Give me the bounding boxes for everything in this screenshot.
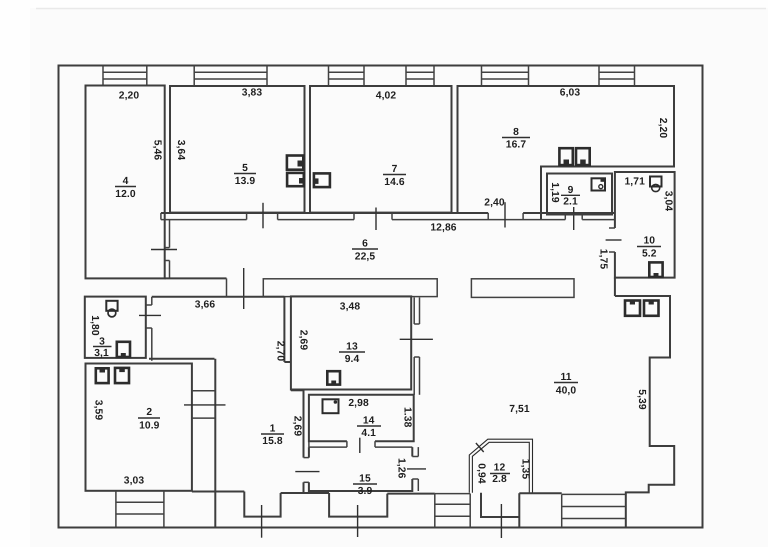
svg-text:3,59: 3,59 <box>92 400 103 421</box>
svg-text:22,5: 22,5 <box>355 252 376 263</box>
room 14 number/area <box>357 416 381 440</box>
room 10 number/area <box>637 236 661 260</box>
corridor 6 top wall (12,86) <box>161 213 615 220</box>
svg-text:0,94: 0,94 <box>475 463 486 484</box>
svg-text:3,04: 3,04 <box>663 191 674 212</box>
window W6 top wall <box>599 66 635 86</box>
svg-text:11: 11 <box>560 372 571 383</box>
room 9 box <box>541 167 612 220</box>
sink icon room 9 <box>592 178 606 190</box>
bottom window W7 (steps below room 2) <box>116 491 164 527</box>
svg-text:2.8: 2.8 <box>492 474 507 485</box>
svg-text:2.1: 2.1 <box>563 197 578 208</box>
appliance icons room 11 <box>625 301 640 316</box>
room 7 outline <box>310 86 452 213</box>
svg-text:6,03: 6,03 <box>560 88 581 99</box>
room 3 outline <box>85 297 146 358</box>
svg-text:2,40: 2,40 <box>484 198 505 209</box>
svg-text:3,1: 3,1 <box>94 348 109 359</box>
room 8 number/area <box>502 127 530 151</box>
svg-text:1,71: 1,71 <box>624 177 645 188</box>
stove icons room 8 <box>559 148 572 165</box>
appliance icon room 7 <box>314 173 330 187</box>
svg-text:2,69: 2,69 <box>292 416 303 437</box>
window W1 top wall <box>103 66 147 86</box>
svg-text:5: 5 <box>242 163 248 174</box>
room 12 number/area <box>490 463 510 486</box>
room 9 number/area <box>561 185 580 208</box>
svg-text:13.9: 13.9 <box>235 176 256 187</box>
room 14/15 wall second line <box>309 438 412 453</box>
svg-text:2,20: 2,20 <box>119 91 140 102</box>
room 10 outline with door <box>606 172 675 296</box>
svg-text:14: 14 <box>363 416 375 427</box>
window W5 top wall <box>482 66 529 86</box>
svg-text:4,02: 4,02 <box>376 91 397 102</box>
room 2 number/area <box>138 407 160 432</box>
room 11 number/area <box>554 372 578 397</box>
svg-text:4: 4 <box>123 176 129 187</box>
entrance stair <box>435 494 470 528</box>
window W2 top wall <box>194 66 267 86</box>
svg-text:12: 12 <box>494 463 506 474</box>
svg-text:3,48: 3,48 <box>340 302 361 313</box>
svg-text:9: 9 <box>568 185 574 196</box>
svg-text:3,64: 3,64 <box>175 140 186 161</box>
svg-text:40,0: 40,0 <box>556 386 577 397</box>
sink icon room 10 bottom <box>649 262 662 277</box>
appliance icon room 14 <box>323 399 339 413</box>
room 7 number/area <box>383 164 406 188</box>
svg-text:16.7: 16.7 <box>506 140 527 151</box>
porch recess 1 <box>244 492 280 538</box>
room 15 number/area <box>353 474 377 498</box>
corridor bottom wall piece B <box>471 279 574 298</box>
svg-text:1,26: 1,26 <box>395 458 406 479</box>
wall room4-corridor door <box>151 220 177 279</box>
svg-text:1,19: 1,19 <box>549 182 560 203</box>
svg-text:5,39: 5,39 <box>636 389 647 410</box>
svg-text:14.6: 14.6 <box>384 177 405 188</box>
room 13 number/area <box>339 342 365 366</box>
svg-text:3,66: 3,66 <box>195 300 216 311</box>
room 1 number/area <box>261 424 284 448</box>
svg-text:12,86: 12,86 <box>430 223 456 234</box>
stove icon room 3 <box>117 342 130 357</box>
appliance icon room 5 lower <box>287 173 304 186</box>
room 14 outline with door in bottom <box>309 395 414 441</box>
window W3 top wall <box>329 66 365 86</box>
svg-text:8: 8 <box>513 127 519 138</box>
room 15 outline with doors <box>295 447 426 491</box>
svg-text:2: 2 <box>146 407 152 418</box>
svg-text:10.9: 10.9 <box>139 421 160 432</box>
room 5 outline <box>170 86 305 213</box>
door-steps between room 2 and room 1 <box>184 391 226 418</box>
room 8 outline <box>458 86 675 213</box>
svg-text:10: 10 <box>643 236 655 247</box>
svg-text:3.9: 3.9 <box>358 486 373 497</box>
svg-text:7: 7 <box>392 164 398 175</box>
wall rooms13/11 with door <box>400 298 433 395</box>
toilet icon room 3 <box>106 301 117 317</box>
room 5 number/area <box>234 163 256 187</box>
svg-text:2,69: 2,69 <box>297 330 308 351</box>
svg-text:5.2: 5.2 <box>642 249 657 260</box>
svg-text:2,98: 2,98 <box>348 398 369 409</box>
svg-text:2,20: 2,20 <box>657 118 668 139</box>
svg-text:1.38: 1.38 <box>401 407 412 428</box>
room 4 number/area <box>115 176 136 200</box>
bottom window W8 <box>562 494 626 527</box>
room 3 number/area <box>93 337 112 360</box>
room 11 upper-right boundary <box>615 296 674 528</box>
appliance icons room 2 <box>96 368 109 383</box>
room 6 number/area <box>352 239 378 263</box>
svg-text:3,83: 3,83 <box>242 88 263 99</box>
bottom wall inner segments <box>192 492 562 494</box>
svg-text:12.0: 12.0 <box>115 189 136 200</box>
svg-text:2,70: 2,70 <box>275 341 286 362</box>
building exterior outline <box>59 66 703 528</box>
svg-text:4.1: 4.1 <box>361 428 376 439</box>
corridor bottom wall piece A <box>263 279 437 297</box>
svg-text:1,80: 1,80 <box>89 315 100 336</box>
room 3 right wall door <box>139 297 161 361</box>
room 4 outline <box>86 86 165 279</box>
svg-text:1: 1 <box>270 424 276 435</box>
toilet icon room 10 <box>650 177 662 192</box>
svg-text:5,46: 5,46 <box>152 140 163 161</box>
svg-text:15.8: 15.8 <box>262 436 283 447</box>
corridor top wall dimension ticks <box>263 202 574 230</box>
svg-text:9.4: 9.4 <box>345 354 360 365</box>
appliance icon room 13 <box>327 371 340 384</box>
room 2 outline <box>86 364 192 491</box>
svg-text:3,03: 3,03 <box>124 476 145 487</box>
appliance icon room 5 upper <box>287 156 303 170</box>
svg-text:13: 13 <box>346 342 358 353</box>
svg-text:6: 6 <box>362 239 368 250</box>
hall bottom wall / room 2 top area <box>149 359 215 527</box>
room 12 double outline with chamfer door <box>469 439 532 493</box>
window W4 top wall <box>406 66 434 86</box>
porch recess 3 below room 12 <box>481 493 519 538</box>
room 13 outline <box>291 296 411 390</box>
hall top wall <box>152 297 291 362</box>
wall room1 right <box>304 390 309 492</box>
svg-text:7,51: 7,51 <box>509 404 530 415</box>
svg-text:15: 15 <box>359 474 371 485</box>
porch recess 2 <box>329 493 387 537</box>
corridor left door jamb and tick <box>165 268 244 309</box>
svg-text:1,35: 1,35 <box>520 459 531 480</box>
svg-text:1,75: 1,75 <box>598 249 609 270</box>
